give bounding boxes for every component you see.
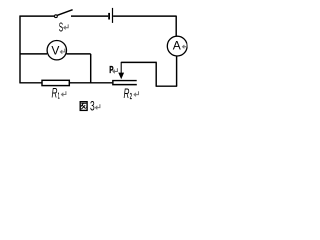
wire voltmeter branch drop: [90, 54, 92, 83]
wire voltmeter branch from left rail: [20, 53, 47, 55]
paragraph mark after S: [64, 24, 68, 29]
switch S blade: [57, 10, 72, 16]
ammeter A circle: [167, 36, 187, 56]
wire from switch to battery: [71, 15, 108, 17]
battery negative plate (short thick): [108, 13, 110, 20]
wire from ammeter bottom down: [176, 56, 178, 86]
rheostat slider arrow P: [118, 62, 124, 79]
paragraph mark after P: [113, 68, 117, 73]
left rail wire: [19, 16, 21, 84]
svg-text:P: P: [109, 65, 113, 76]
paragraph mark after A: [183, 43, 187, 48]
wire bottom from left rail to rheostat: [20, 82, 113, 84]
svg-text:R: R: [124, 86, 130, 101]
wire top-left from left rail to switch: [20, 15, 55, 17]
svg-text:A: A: [173, 38, 181, 52]
wire slider lead to arrow: [121, 61, 157, 63]
wire from voltmeter to right branch corner: [66, 53, 90, 55]
wire right drop to ammeter: [175, 16, 177, 37]
paragraph mark after R1: [62, 91, 66, 96]
svg-text:3: 3: [90, 99, 95, 114]
paragraph mark after V: [60, 49, 64, 54]
battery positive plate (long thin): [112, 8, 114, 23]
svg-text:S: S: [59, 19, 64, 34]
paragraph mark after caption: [96, 104, 100, 109]
svg-text:V: V: [51, 44, 59, 58]
rheostat R2 body (open right end): [113, 81, 137, 85]
switch S pivot circle: [55, 15, 58, 18]
resistor R1 box: [42, 80, 69, 85]
wire bottom-right horizontal: [156, 85, 177, 87]
caption 图 glyph (drawn): [80, 102, 87, 111]
svg-text:1: 1: [58, 92, 60, 101]
wire riser up to slider lead: [155, 62, 157, 86]
voltmeter V circle: [47, 41, 66, 60]
svg-text:2: 2: [130, 92, 132, 101]
svg-text:R: R: [52, 86, 58, 101]
wire from battery to top-right corner: [113, 15, 176, 17]
paragraph mark after R2: [134, 91, 138, 96]
